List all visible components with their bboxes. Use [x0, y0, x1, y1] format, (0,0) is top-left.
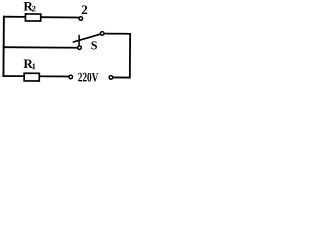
resistor R2 [25, 14, 40, 21]
svg-text:2: 2 [81, 2, 88, 17]
svg-text:220V: 220V [78, 69, 99, 84]
wire bottom branch through R1 [3, 75, 69, 78]
wire right vertical bus [129, 33, 131, 78]
switch S pivot node [78, 46, 82, 50]
svg-text:1: 1 [32, 61, 36, 71]
wire right bus to supply terminal [113, 76, 131, 78]
svg-text:2: 2 [32, 3, 36, 13]
switch S handle stem [78, 35, 80, 46]
resistor R1 [24, 73, 39, 81]
wire middle branch to switch [3, 46, 78, 49]
terminal node 2 [79, 17, 83, 21]
wire switch to right bus [104, 33, 131, 35]
terminal supply right [109, 76, 113, 80]
terminal supply left [69, 75, 73, 79]
wire R2 to terminal 2 [41, 16, 79, 18]
wire top branch to R2 [3, 16, 26, 18]
switch S blade [73, 34, 101, 43]
svg-text:S: S [91, 38, 98, 52]
wire left vertical bus [2, 16, 4, 77]
switch S contact node [100, 32, 104, 36]
